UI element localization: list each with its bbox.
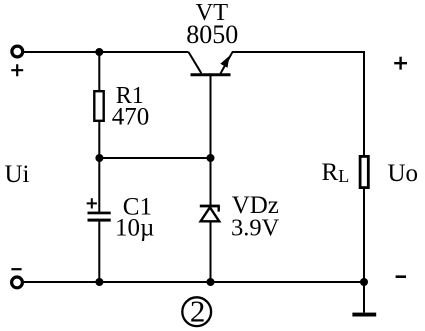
label - (input polarity) <box>11 268 21 270</box>
wire zener top lead <box>210 158 212 206</box>
node R1 top junction <box>95 48 103 56</box>
wire C1 top lead <box>98 158 100 212</box>
node R1/C1 mid junction <box>95 154 103 162</box>
wire R1 bottom lead <box>98 122 100 158</box>
svg-text:Uo: Uo <box>388 160 419 187</box>
svg-text:Ui: Ui <box>5 161 30 188</box>
wire zener bottom lead <box>210 221 212 282</box>
capacitor C1 plus mark <box>87 198 97 208</box>
svg-text:2: 2 <box>190 293 206 328</box>
label + (output polarity) <box>394 57 407 70</box>
transistor VT collector lead <box>189 52 202 73</box>
wire C1 bottom lead <box>98 222 100 282</box>
wire top rail left <box>24 51 189 53</box>
node zener bottom junction <box>207 278 215 286</box>
node base/zener mid junction <box>207 154 215 162</box>
resistor R1 <box>94 91 103 121</box>
node ground junction <box>360 278 368 286</box>
zener diode VDz triangle <box>201 207 220 221</box>
input terminal top-left (+) <box>12 46 23 57</box>
wire mid rail <box>99 157 210 159</box>
wire ground lead <box>363 282 365 313</box>
wire right rail down <box>363 51 365 156</box>
zener diode VDz cathode bar <box>200 205 220 208</box>
label - (output polarity) <box>396 275 406 278</box>
svg-text:3.9V: 3.9V <box>231 214 280 241</box>
wire RL bottom lead <box>363 189 365 282</box>
wire top rail right <box>232 51 365 53</box>
resistor RL <box>360 156 368 187</box>
capacitor C1 top plate <box>88 212 111 215</box>
node C1 bottom junction <box>95 278 103 286</box>
transistor VT emitter lead <box>221 52 233 73</box>
transistor VT base bar <box>191 73 231 76</box>
svg-text:8050: 8050 <box>186 20 238 49</box>
capacitor C1 bottom plate <box>88 219 111 222</box>
svg-text:10µ: 10µ <box>115 214 154 241</box>
zener diode VDz cathode tab <box>217 206 219 212</box>
wire bottom rail <box>24 281 364 283</box>
label + (input polarity) <box>11 64 23 76</box>
svg-text:470: 470 <box>112 104 150 131</box>
figure number circle 2 <box>182 297 211 326</box>
transistor VT emitter arrow <box>220 56 229 68</box>
wire R1 top lead <box>98 52 100 91</box>
input terminal bottom-left (-) <box>12 277 23 288</box>
ground <box>352 313 376 317</box>
wire base lead <box>210 76 212 158</box>
